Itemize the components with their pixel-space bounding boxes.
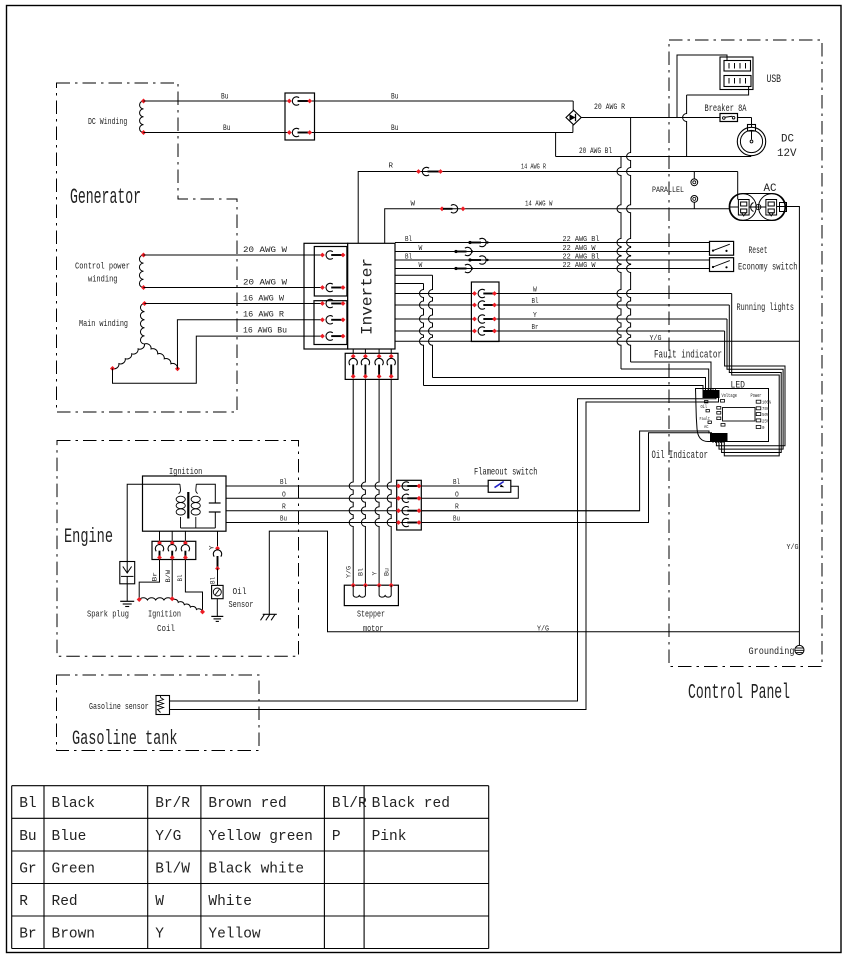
- winding main: [79, 301, 180, 371]
- svg-text:Bu: Bu: [384, 568, 391, 576]
- svg-text:Inverter: Inverter: [359, 258, 377, 335]
- wire sense pair B: [395, 284, 703, 391]
- led bottom connector: [711, 434, 728, 444]
- svg-text:14 AWG W: 14 AWG W: [525, 201, 553, 209]
- wire 22 AWG W 1: [395, 245, 710, 256]
- wire ign Bu: [226, 516, 649, 524]
- wire spark plug HV: [127, 484, 142, 561]
- label running lights: [737, 302, 795, 314]
- svg-text:Bl: Bl: [177, 574, 184, 581]
- wire 20 AWG W 1: [144, 246, 323, 255]
- wire 22 AWG Bl 2: [395, 254, 710, 265]
- svg-text:Black red: Black red: [372, 796, 450, 812]
- svg-text:Reset: Reset: [749, 245, 768, 257]
- spark plug ground: [120, 601, 134, 606]
- svg-text:20 AWG Bl: 20 AWG Bl: [579, 147, 612, 156]
- svg-text:Flameout switch: Flameout switch: [474, 467, 538, 479]
- svg-text:Blue: Blue: [52, 829, 87, 845]
- svg-text:20 AWG W: 20 AWG W: [243, 279, 287, 288]
- svg-text:Power: Power: [751, 393, 762, 399]
- engine enclosure: [57, 441, 299, 657]
- svg-text:White: White: [208, 894, 252, 910]
- svg-text:22 AWG Bl: 22 AWG Bl: [563, 236, 600, 244]
- wire stepper 4: [384, 349, 392, 585]
- svg-text:Brown: Brown: [52, 927, 96, 943]
- svg-text:Gasoline tank: Gasoline tank: [72, 728, 178, 751]
- svg-text:PARALLEL: PARALLEL: [652, 185, 684, 195]
- svg-text:Spark plug: Spark plug: [87, 609, 129, 620]
- wire ac feed down: [737, 194, 739, 200]
- connector J2: [304, 243, 348, 349]
- svg-text:Stepper: Stepper: [357, 609, 385, 620]
- connector J3 strip: [345, 353, 398, 379]
- svg-text:O: O: [455, 491, 459, 499]
- svg-text:Y/G: Y/G: [346, 566, 353, 578]
- svg-text:USB: USB: [767, 74, 782, 86]
- inverter U1: [348, 243, 395, 349]
- engine ground wire Y/G: [269, 531, 799, 633]
- led panel: [696, 381, 772, 442]
- svg-text:Gasoline sensor: Gasoline sensor: [89, 702, 149, 712]
- svg-text:Bl: Bl: [358, 568, 365, 576]
- label oil indicator: [652, 450, 709, 462]
- svg-text:Bu: Bu: [221, 93, 229, 102]
- wire gasoline B: [170, 398, 719, 710]
- svg-text:25%: 25%: [762, 418, 769, 424]
- svg-text:AC: AC: [704, 425, 709, 430]
- svg-text:Economy switch: Economy switch: [738, 262, 798, 274]
- svg-text:DC: DC: [781, 134, 794, 146]
- svg-text:Oil Indicator: Oil Indicator: [652, 450, 709, 462]
- svg-text:Control Panel: Control Panel: [688, 682, 790, 705]
- wire sense pair A: [395, 275, 706, 390]
- svg-text:Yellow green: Yellow green: [208, 829, 312, 845]
- usb ports: [720, 57, 781, 90]
- wire ign Bl: [226, 479, 488, 487]
- control panel enclosure: [669, 40, 822, 705]
- svg-text:Y: Y: [155, 927, 164, 943]
- svg-text:Bl/R: Bl/R: [332, 796, 367, 812]
- svg-text:Main winding: Main winding: [79, 319, 128, 329]
- svg-text:Bl: Bl: [280, 479, 287, 487]
- svg-text:0: 0: [762, 425, 765, 431]
- svg-text:Gr: Gr: [19, 862, 36, 878]
- wire 22 AWG Bl 1: [395, 236, 710, 247]
- svg-text:Y/G: Y/G: [650, 335, 662, 343]
- wire 16 AWG Bu: [113, 327, 323, 384]
- svg-text:winding: winding: [88, 275, 118, 285]
- wire ign R: [226, 504, 640, 512]
- switch S3 flameout: [474, 467, 538, 493]
- svg-text:Sensor: Sensor: [229, 599, 254, 610]
- connector J4: [471, 282, 499, 342]
- spark plug E1: [87, 562, 135, 620]
- gasoline tank enclosure: [57, 675, 260, 751]
- svg-text:Red: Red: [52, 894, 78, 910]
- connector J6: [396, 480, 421, 530]
- wire 20 AWG Bl: [556, 133, 752, 157]
- oil sensor connector: [208, 531, 221, 584]
- wire running W: [395, 287, 779, 456]
- svg-text:22 AWG Bl: 22 AWG Bl: [563, 254, 600, 262]
- svg-text:Br: Br: [152, 572, 159, 582]
- wire 22 AWG W 2: [395, 262, 710, 273]
- svg-text:LED: LED: [731, 381, 746, 392]
- wire coil Bl: [177, 560, 202, 612]
- svg-text:Oil: Oil: [233, 586, 247, 597]
- gasoline sensor R1: [89, 696, 170, 715]
- breaker CB1 8A: [705, 103, 747, 122]
- wire ign O: [226, 486, 518, 499]
- label fault indicator: [654, 350, 722, 362]
- svg-text:Engine: Engine: [64, 526, 113, 549]
- svg-text:Ignition: Ignition: [169, 466, 202, 477]
- svg-text:Y: Y: [371, 571, 378, 575]
- wire Bu upper: [144, 93, 574, 111]
- svg-text:20 AWG R: 20 AWG R: [594, 103, 625, 112]
- svg-text:O: O: [282, 491, 286, 499]
- svg-text:Black: Black: [52, 796, 96, 812]
- wire 20 AWG R: [581, 103, 720, 118]
- ignition coil L4: [137, 596, 205, 634]
- svg-text:Bl: Bl: [405, 254, 412, 262]
- wire coil Br: [139, 560, 159, 600]
- winding DC Winding: [88, 99, 146, 136]
- svg-text:Bu: Bu: [19, 829, 36, 845]
- wire usb negative: [683, 87, 749, 157]
- oil sensor B1: [212, 569, 254, 617]
- svg-text:Y/G: Y/G: [787, 544, 799, 552]
- wire running Br: [395, 324, 785, 446]
- svg-text:16 AWG Bu: 16 AWG Bu: [243, 327, 287, 336]
- wire oil ind Bu: [421, 433, 712, 523]
- svg-text:W: W: [419, 262, 423, 270]
- svg-text:R: R: [19, 894, 28, 910]
- svg-text:Br: Br: [19, 927, 36, 943]
- svg-text:20 AWG W: 20 AWG W: [243, 246, 287, 255]
- legend table: [12, 786, 489, 949]
- svg-text:16 AWG W: 16 AWG W: [243, 295, 284, 304]
- svg-text:22 AWG W: 22 AWG W: [563, 245, 597, 253]
- winding control power: [75, 253, 146, 291]
- svg-text:Bu: Bu: [280, 516, 287, 524]
- svg-text:Generator: Generator: [70, 185, 141, 210]
- svg-text:Bl: Bl: [405, 236, 412, 244]
- svg-text:Grounding: Grounding: [749, 646, 795, 658]
- wire 14 AWG W: [385, 201, 730, 244]
- wire Y/G main: [395, 335, 799, 343]
- svg-text:Fault indicator: Fault indicator: [654, 350, 722, 362]
- svg-text:B/W: B/W: [165, 570, 172, 583]
- svg-text:Breaker 8A: Breaker 8A: [705, 103, 747, 115]
- wire oil ind R: [421, 431, 709, 511]
- svg-text:Bu: Bu: [223, 124, 231, 133]
- svg-text:W: W: [155, 894, 164, 910]
- svg-text:Brown red: Brown red: [208, 796, 286, 812]
- svg-text:Voltage: Voltage: [722, 393, 738, 399]
- svg-text:Y/G: Y/G: [537, 626, 549, 634]
- wire fault sense A: [617, 157, 709, 391]
- svg-text:Bl: Bl: [453, 479, 460, 487]
- wire 16 AWG W: [145, 295, 323, 304]
- svg-text:100%: 100%: [762, 400, 771, 406]
- svg-text:DC Winding: DC Winding: [88, 117, 127, 127]
- switch S2 economy: [710, 258, 798, 274]
- svg-text:14 AWG R: 14 AWG R: [521, 164, 546, 172]
- oil sensor ground: [211, 616, 223, 621]
- switch S1 reset: [710, 241, 768, 257]
- svg-text:Bu: Bu: [391, 124, 399, 133]
- grounding symbol: [749, 645, 805, 658]
- wire fault sense B: [627, 118, 711, 391]
- svg-text:Ignition: Ignition: [148, 609, 181, 620]
- wire Bu lower: [144, 124, 573, 133]
- svg-text:50%: 50%: [762, 412, 769, 418]
- svg-text:motor: motor: [363, 623, 384, 634]
- wire stepper 1: [346, 349, 354, 585]
- wire coil B/W: [165, 560, 172, 599]
- wire gasoline A: [170, 398, 717, 702]
- svg-text:Yellow: Yellow: [208, 927, 261, 943]
- svg-text:Pink: Pink: [372, 829, 407, 845]
- svg-text:22 AWG W: 22 AWG W: [563, 262, 597, 270]
- rectifier D1: [566, 110, 581, 125]
- ignition unit: [143, 466, 227, 531]
- parallel terminals: [652, 172, 698, 209]
- svg-text:W: W: [419, 245, 423, 253]
- chassis ground: [261, 614, 277, 620]
- svg-text:Control power: Control power: [75, 262, 130, 272]
- svg-text:75%: 75%: [762, 406, 769, 412]
- svg-text:Bl/W: Bl/W: [155, 862, 190, 878]
- svg-text:Bl: Bl: [19, 796, 36, 812]
- svg-text:Br/R: Br/R: [155, 796, 190, 812]
- wire stepper 2: [358, 349, 366, 585]
- svg-text:R: R: [389, 163, 394, 171]
- wire 16 AWG R: [177, 311, 322, 369]
- wire 14 AWG R: [358, 163, 738, 244]
- svg-text:Bu: Bu: [453, 516, 460, 524]
- svg-text:Bl: Bl: [209, 577, 216, 584]
- wire usb positive: [677, 55, 727, 118]
- svg-text:Running lights: Running lights: [737, 302, 795, 314]
- svg-text:R: R: [282, 504, 286, 512]
- connector J5: [152, 531, 196, 560]
- wire stepper 3: [371, 349, 379, 585]
- wire running Bl: [395, 298, 781, 453]
- svg-text:R: R: [455, 504, 459, 512]
- generator enclosure: [57, 83, 238, 412]
- ac outlet: [729, 183, 786, 221]
- svg-text:Green: Green: [52, 862, 96, 878]
- svg-text:Y/G: Y/G: [155, 829, 181, 845]
- svg-text:16 AWG R: 16 AWG R: [243, 311, 284, 320]
- wire 20 AWG W 2: [144, 279, 323, 288]
- dc socket 12V: [737, 118, 797, 161]
- svg-text:W: W: [411, 201, 416, 209]
- wire running Y: [395, 312, 783, 449]
- led top connector: [703, 388, 719, 398]
- svg-text:Bu: Bu: [391, 93, 399, 102]
- wire Y/G to grounding: [786, 207, 800, 646]
- svg-text:12V: 12V: [777, 148, 797, 160]
- stepper motor M1: [344, 583, 398, 634]
- connector J1: [285, 93, 315, 140]
- svg-text:P: P: [332, 829, 341, 845]
- svg-text:Y: Y: [208, 545, 215, 550]
- svg-text:Black white: Black white: [208, 862, 304, 878]
- svg-text:Coil: Coil: [157, 623, 175, 634]
